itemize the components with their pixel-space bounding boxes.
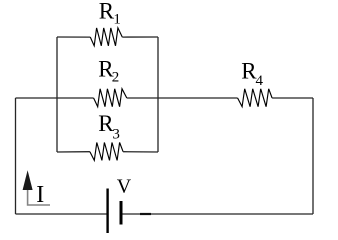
- wire: bottom right segment from battery: [122, 213, 314, 215]
- svg-text:R: R: [99, 0, 115, 23]
- current arrow I: shaft: [28, 188, 50, 205]
- battery V: short plate: [120, 201, 123, 225]
- wire: middle row right of R4: [272, 97, 313, 99]
- wire: parallel box right edge: [157, 37, 159, 152]
- svg-text:4: 4: [256, 73, 264, 89]
- wire: thick dash on bottom wire: [140, 213, 151, 215]
- wire: box bottom left of R3: [57, 151, 90, 153]
- resistor R2: [94, 89, 127, 107]
- svg-text:I: I: [36, 182, 44, 208]
- battery V: long plate: [106, 189, 108, 234]
- wire: middle row between R2 and R4: [127, 97, 238, 99]
- wire: bottom left segment to battery: [16, 213, 108, 215]
- current arrow I: head: [23, 170, 33, 190]
- resistor R3: [90, 143, 123, 161]
- svg-text:3: 3: [112, 126, 120, 142]
- wire: outer loop right vertical: [312, 98, 314, 214]
- wire: middle row left (node to R2): [16, 97, 94, 99]
- wire: outer loop left vertical: [15, 98, 17, 214]
- svg-text:V: V: [117, 176, 132, 198]
- svg-text:2: 2: [112, 70, 120, 86]
- svg-text:1: 1: [113, 12, 121, 28]
- wire: box bottom right of R3: [123, 151, 158, 153]
- resistor R4: [238, 89, 273, 107]
- resistor R1: [90, 28, 122, 46]
- wire: box top left of R1: [57, 36, 90, 38]
- wire: parallel box left edge: [56, 37, 58, 152]
- wire: box top right of R1: [122, 36, 158, 38]
